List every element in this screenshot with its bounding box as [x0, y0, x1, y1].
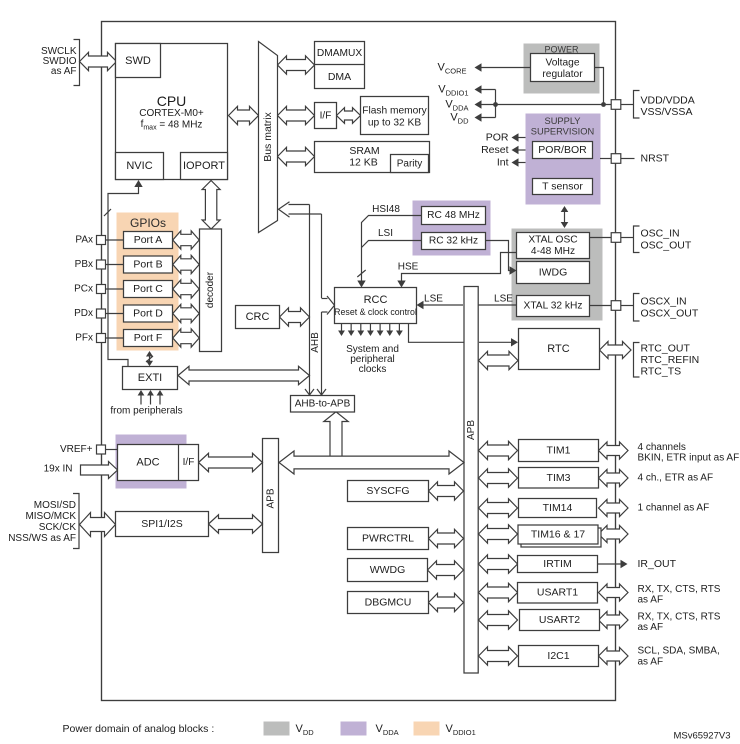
legend swatch VDDIO1 — [414, 722, 440, 736]
svg-text:I/F: I/F — [183, 457, 195, 468]
svg-text:OSCX_OUT: OSCX_OUT — [641, 308, 699, 320]
pin PBx wire — [106, 264, 124, 266]
svg-text:OSCX_IN: OSCX_IN — [641, 296, 687, 308]
wire HSI48 to RCC — [362, 216, 422, 283]
svg-text:TIM14: TIM14 — [543, 502, 573, 514]
svg-text:Port A: Port A — [134, 234, 163, 246]
block DMAMUX-DMA — [315, 42, 365, 89]
svg-text:USART1: USART1 — [537, 587, 578, 599]
svg-text:Power domain of analog blocks: Power domain of analog blocks : — [63, 723, 215, 735]
pin VREF+ port square — [97, 445, 106, 454]
svg-text:TIM1: TIM1 — [547, 445, 571, 457]
svg-text:APB: APB — [466, 420, 477, 440]
block SYSCFG — [348, 481, 429, 502]
pin PAx wire — [106, 239, 124, 241]
svg-text:up to 32 KB: up to 32 KB — [368, 118, 421, 129]
svg-text:LSE: LSE — [424, 294, 443, 305]
arrow APB to TIM1 — [479, 441, 518, 459]
arrow SPI1 external pins — [80, 513, 116, 537]
arrow WWDG to APB — [428, 561, 464, 579]
block CRC — [236, 306, 280, 329]
arrow 19x IN to ADC — [81, 462, 118, 479]
svg-text:clocks: clocks — [359, 364, 387, 375]
block RCC — [335, 288, 417, 324]
arrow SPI1 to APB — [209, 515, 263, 533]
arrow GPIO to EXTI — [149, 354, 151, 364]
block TIM1 — [519, 440, 599, 462]
svg-text:T sensor: T sensor — [542, 181, 583, 193]
arrow APB to I2C1 — [479, 647, 518, 665]
block NVIC — [116, 153, 164, 180]
arrow USART2 external pins — [599, 611, 629, 628]
svg-text:4 channels: 4 channels — [638, 442, 686, 453]
block WWDG — [348, 559, 428, 582]
svg-text:WWDG: WWDG — [370, 564, 406, 576]
svg-text:SCL, SDA, SMBA,: SCL, SDA, SMBA, — [638, 646, 720, 657]
svg-text:SUPPLY: SUPPLY — [545, 116, 581, 126]
block flash I/F — [315, 103, 337, 129]
block AHB-to-APB — [291, 396, 355, 413]
block bus matrix — [259, 42, 278, 233]
svg-text:RTC_OUT: RTC_OUT — [641, 343, 691, 355]
wire LSI join — [362, 241, 422, 248]
arrow Port C to decoder — [173, 280, 199, 298]
arrow flash I/F to flash memory — [337, 108, 361, 124]
block Port F — [124, 330, 173, 347]
svg-text:CPU: CPU — [157, 93, 187, 109]
wire VDD branch vertical — [495, 90, 497, 118]
wire POR — [513, 137, 526, 139]
block RTC — [519, 329, 600, 370]
svg-text:MOSI/SD: MOSI/SD — [34, 500, 76, 511]
from peripherals arrows — [140, 395, 142, 405]
junction dot VDD-branch — [493, 102, 498, 107]
pin PCx port square — [97, 285, 106, 294]
bus AHB arrow into bus matrix — [289, 204, 310, 206]
block Port A — [124, 232, 173, 249]
svg-text:CRC: CRC — [246, 311, 270, 323]
svg-text:RCC: RCC — [364, 294, 388, 306]
svg-text:TIM16 & 17: TIM16 & 17 — [531, 529, 585, 541]
wire HSE from XTAL OSC to RCC — [402, 253, 517, 283]
svg-text:MSv65927V3: MSv65927V3 — [673, 731, 730, 742]
block TIM14 — [519, 499, 597, 518]
wire NRST — [600, 158, 611, 160]
svg-text:OSC_OUT: OSC_OUT — [641, 240, 692, 252]
block Port C — [124, 281, 173, 298]
block POR-BOR — [533, 142, 593, 159]
arrow CRC to AHB — [280, 308, 310, 326]
bracket SWCLK-SWDIO — [74, 40, 80, 86]
svg-text:1 channel as AF: 1 channel as AF — [638, 503, 710, 514]
wire XTAL 32 kHz to OSCX port — [590, 305, 612, 307]
block Port D — [124, 305, 173, 322]
svg-text:I2C1: I2C1 — [547, 650, 569, 662]
svg-text:SYSCFG: SYSCFG — [366, 485, 409, 497]
svg-text:OSC_IN: OSC_IN — [641, 228, 680, 240]
svg-text:VDD/VDDA: VDD/VDDA — [641, 95, 695, 107]
svg-text:PAx: PAx — [75, 235, 93, 246]
svg-text:APB: APB — [265, 488, 276, 508]
svg-text:USART2: USART2 — [539, 614, 580, 626]
block SWD — [116, 44, 161, 78]
arrow APB to IRTIM — [479, 555, 518, 573]
svg-text:4-48 MHz: 4-48 MHz — [531, 246, 575, 257]
svg-text:I/F: I/F — [320, 111, 332, 122]
svg-text:Bus matrix: Bus matrix — [262, 111, 274, 161]
svg-text:as AF: as AF — [51, 66, 77, 77]
arrow supply supervision to XTAL — [564, 210, 566, 225]
block voltage regulator — [531, 54, 595, 82]
svg-text:IR_OUT: IR_OUT — [638, 558, 677, 570]
svg-text:RC 48 MHz: RC 48 MHz — [427, 210, 480, 221]
arrow TIM1 external pins — [599, 442, 629, 459]
arrow TIM16-17 external pins — [599, 525, 629, 542]
svg-text:IOPORT: IOPORT — [183, 160, 225, 172]
svg-text:Port B: Port B — [133, 259, 162, 271]
wire VDD main — [496, 104, 612, 106]
svg-text:DBGMCU: DBGMCU — [365, 597, 412, 609]
svg-text:PWRCTRL: PWRCTRL — [362, 533, 414, 545]
pin PCx wire — [106, 288, 124, 290]
RCC output clock arrows — [341, 324, 343, 332]
device outer border — [102, 22, 616, 701]
block TIM16 and 17 shadow — [521, 528, 601, 547]
svg-text:Reset: Reset — [481, 144, 509, 156]
block DBGMCU — [348, 592, 429, 614]
svg-text:Voltage: Voltage — [546, 58, 580, 69]
arrow SYSCFG to APB — [429, 482, 464, 500]
power domain VDDIO1 orange block GPIOs — [117, 213, 179, 351]
legend swatch VDD — [264, 722, 290, 736]
wire XTAL OSC to OSC port — [590, 237, 612, 239]
power domain VDD gray block XTAL — [512, 229, 603, 321]
wire VREF+ — [106, 449, 118, 451]
block SRAM — [315, 142, 430, 173]
tick on NVIC-EXTI wire — [104, 209, 111, 216]
svg-text:VREF+: VREF+ — [60, 444, 93, 455]
block flash memory — [361, 97, 429, 135]
svg-text:NVIC: NVIC — [126, 160, 152, 172]
wire Int — [513, 162, 526, 164]
svg-text:from peripherals: from peripherals — [110, 406, 182, 417]
svg-text:SWD: SWD — [125, 55, 151, 67]
wire LSE from APB to RCC — [422, 304, 463, 306]
pin PFx port square — [97, 334, 106, 343]
svg-text:SCK/CK: SCK/CK — [39, 522, 77, 533]
arrow USART1 external pins — [599, 584, 629, 601]
svg-text:HSI48: HSI48 — [372, 204, 400, 215]
svg-text:Port F: Port F — [134, 332, 163, 344]
bracket VDD-VSS — [634, 91, 640, 119]
svg-text:MISO/MCK: MISO/MCK — [25, 511, 76, 522]
pin PAx port square — [97, 236, 106, 245]
port square OSC — [611, 233, 621, 243]
svg-text:19x IN: 19x IN — [44, 464, 73, 475]
svg-text:GPIOs: GPIOs — [130, 216, 166, 230]
arrow Port B to decoder — [173, 255, 199, 273]
arrow ADC to APB — [199, 453, 263, 471]
block CPU — [116, 44, 228, 180]
block IWDG — [517, 262, 590, 284]
arrow APB small to APB tall — [279, 451, 464, 474]
arrow RTC external pins — [600, 341, 632, 358]
svg-text:NSS/WS as AF: NSS/WS as AF — [8, 533, 76, 544]
block T sensor — [533, 179, 593, 195]
arrow CPU to bus matrix — [229, 106, 259, 124]
arrow Port A to decoder — [173, 231, 199, 249]
pin PFx wire — [106, 337, 124, 339]
svg-text:ADC: ADC — [136, 457, 159, 469]
bracket OSCX — [634, 294, 640, 322]
bus APB tall bar — [464, 287, 478, 674]
pin PBx port square — [97, 260, 106, 269]
arrow DBGMCU to APB — [429, 593, 464, 611]
pin PDx wire — [106, 313, 124, 315]
svg-text:Reset & clock control: Reset & clock control — [334, 307, 417, 317]
arrow branch up to AHB-to-APB — [324, 412, 348, 456]
svg-text:regulator: regulator — [542, 69, 583, 80]
port square OSCX — [611, 301, 621, 311]
block IOPORT — [181, 153, 228, 180]
svg-text:IRTIM: IRTIM — [543, 558, 571, 570]
wire VDDA arrow — [476, 104, 496, 106]
svg-text:RTC_REFIN: RTC_REFIN — [641, 354, 700, 366]
block USART2 — [520, 610, 600, 631]
power domain VDDA purple block ADC — [116, 435, 187, 489]
block XTAL 32 kHz — [517, 296, 590, 317]
bus AHB arrowheads into AHB-to-APB — [309, 389, 311, 395]
power domain VDDA purple block SUPPLY SUPERVISION — [526, 114, 601, 205]
block SPI1-I2S — [116, 512, 209, 537]
wire VCORE — [476, 67, 531, 69]
svg-text:IWDG: IWDG — [539, 267, 568, 279]
arrow TIM14 external pins — [599, 499, 629, 516]
arrow APB to TIM14 — [479, 499, 518, 517]
block EXTI — [123, 367, 178, 390]
svg-text:as AF: as AF — [638, 595, 664, 606]
svg-text:PDx: PDx — [74, 308, 93, 319]
wire RCC clocks to RTC — [409, 324, 464, 343]
wire VDDIO1 arrow — [476, 89, 496, 91]
wire IRTIM to IR_OUT — [598, 563, 623, 565]
arrow APB to TIM3 — [479, 469, 518, 487]
svg-text:as AF: as AF — [638, 622, 664, 633]
arrow I2C1 external pins — [599, 647, 629, 664]
svg-text:POR: POR — [486, 132, 509, 144]
svg-text:Port D: Port D — [133, 308, 163, 320]
bus APB small bar — [263, 439, 279, 553]
block IRTIM — [518, 556, 598, 573]
svg-text:SRAM: SRAM — [349, 145, 379, 157]
block TIM16 and 17 — [518, 525, 598, 544]
svg-text:RX, TX, CTS, RTS: RX, TX, CTS, RTS — [638, 584, 721, 595]
arrow APB to USART2 — [479, 611, 518, 629]
svg-text:PBx: PBx — [75, 259, 93, 270]
svg-text:XTAL OSC: XTAL OSC — [528, 235, 577, 246]
legend swatch VDDA — [341, 722, 367, 736]
svg-text:4 ch., ETR as AF: 4 ch., ETR as AF — [638, 473, 714, 484]
svg-text:Int: Int — [497, 157, 509, 169]
block RC 32 kHz — [422, 233, 486, 250]
arrow IOPORT to decoder — [202, 181, 220, 230]
bus AHB arrow into RCC — [322, 298, 328, 300]
svg-text:Flash memory: Flash memory — [362, 106, 427, 117]
svg-text:AHB: AHB — [310, 332, 321, 353]
svg-text:12 KB: 12 KB — [349, 157, 378, 169]
svg-text:EXTI: EXTI — [138, 372, 162, 384]
tick on GPIO-EXTI arrow — [146, 356, 153, 362]
bracket OSC — [634, 226, 640, 253]
block TIM3 — [519, 468, 599, 489]
tick on HSI48-LSI wire — [357, 270, 365, 277]
arrow APB to RTC — [479, 351, 519, 369]
power domain VDD gray block POWER — [524, 44, 600, 94]
arrow bus matrix to flash I/F — [278, 106, 315, 124]
block Port B — [124, 256, 173, 273]
bracket RTC pins — [634, 343, 640, 378]
arrow EXTI to AHB — [178, 366, 310, 384]
svg-text:PCx: PCx — [74, 284, 93, 295]
wire VDD arrow — [476, 117, 496, 119]
arrow Port F to decoder — [173, 329, 199, 347]
wire voltage regulator output — [595, 68, 604, 105]
junction dot VDD-regulator — [601, 102, 606, 107]
svg-text:RTC_TS: RTC_TS — [641, 366, 682, 378]
port square VDD/VDDA — [611, 100, 621, 110]
arrow Port D to decoder — [173, 304, 199, 322]
wire Reset — [513, 149, 526, 151]
svg-text:Port C: Port C — [133, 283, 163, 295]
svg-text:POR/BOR: POR/BOR — [538, 144, 587, 156]
block ADC with I/F — [118, 445, 199, 481]
svg-text:LSI: LSI — [378, 228, 393, 239]
svg-text:DMAMUX: DMAMUX — [317, 48, 362, 59]
svg-text:XTAL 32 kHz: XTAL 32 kHz — [524, 301, 583, 312]
svg-text:BKIN, ETR input as AF: BKIN, ETR input as AF — [638, 453, 740, 464]
block decoder — [200, 229, 222, 352]
arrow APB to TIM16-17 — [479, 525, 518, 543]
block PWRCTRL — [348, 528, 429, 550]
power domain VDDA purple block RC oscillators — [413, 201, 491, 256]
bracket MOSI-MISO-SCK-NSS — [73, 494, 79, 549]
wire VDD port to bracket — [621, 104, 634, 106]
wire LSI to IWDG — [486, 241, 512, 271]
svg-text:VSS/VSSA: VSS/VSSA — [641, 106, 693, 118]
svg-text:RX, TX, CTS, RTS: RX, TX, CTS, RTS — [638, 612, 721, 623]
svg-text:RC 32 kHz: RC 32 kHz — [429, 236, 478, 247]
port square NRST — [611, 154, 621, 164]
svg-text:LSE: LSE — [494, 294, 513, 305]
bus AHB vertical lines — [309, 205, 311, 390]
arrow bus matrix to SRAM — [278, 147, 315, 165]
svg-text:POWER: POWER — [544, 45, 579, 55]
wire NVIC to EXTI — [108, 186, 139, 367]
svg-text:SPI1/I2S: SPI1/I2S — [141, 518, 182, 530]
svg-text:AHB-to-APB: AHB-to-APB — [295, 399, 351, 410]
svg-text:CORTEX-M0+: CORTEX-M0+ — [139, 108, 204, 119]
block XTAL OSC 4-48 MHz — [517, 233, 590, 259]
svg-text:RTC: RTC — [547, 343, 569, 355]
block RC 48 MHz — [422, 207, 486, 225]
svg-text:Parity: Parity — [397, 159, 423, 170]
svg-text:decoder: decoder — [205, 271, 216, 308]
block parity — [391, 155, 429, 173]
arrow SWD debug port — [80, 52, 117, 70]
arrow PWRCTRL to APB — [429, 529, 464, 547]
arrow TIM3 external pins — [599, 469, 629, 486]
arrow APB to USART1 — [479, 583, 518, 601]
arrow bus matrix to DMA — [278, 56, 315, 74]
svg-text:DMA: DMA — [328, 71, 351, 83]
svg-text:PFx: PFx — [75, 333, 93, 344]
svg-text:NRST: NRST — [641, 153, 670, 165]
block I2C1 — [519, 646, 599, 667]
wire LSE from APB to XTAL 32 kHz — [479, 304, 517, 306]
svg-text:as AF: as AF — [638, 657, 664, 668]
svg-text:SUPERVISION: SUPERVISION — [531, 127, 594, 137]
svg-text:TIM3: TIM3 — [547, 472, 571, 484]
svg-text:HSE: HSE — [398, 262, 419, 273]
pin PDx port square — [97, 309, 106, 318]
block USART1 — [518, 583, 598, 604]
